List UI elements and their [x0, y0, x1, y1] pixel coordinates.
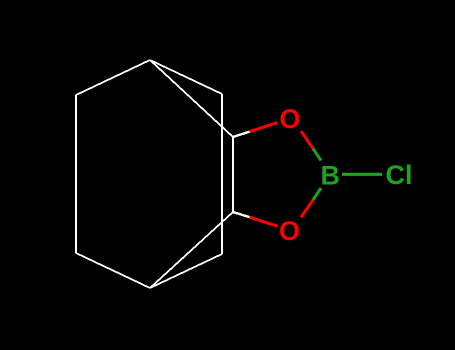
- wire bond O2-B green half: [313, 188, 321, 200]
- wire bond C5-C6 (left vertical): [75, 95, 77, 253]
- wire bond C7a-C3a (fused vertical): [232, 137, 234, 212]
- wire bond C3a-O1 red half: [250, 123, 278, 132]
- wire bond C4-C5 (top-left roof): [76, 60, 150, 95]
- svg-text:Cl: Cl: [386, 160, 413, 190]
- wire bond C7-C7a (bottom-right): [150, 212, 233, 288]
- wire bond C3a-O1 white half: [233, 132, 250, 137]
- wire bond O1-B red half: [301, 131, 313, 149]
- wire bond C4-C8 (bridge top): [150, 60, 222, 94]
- wire bond C6-C7 (bottom-left): [76, 253, 150, 288]
- wire bond O1-B green half: [313, 149, 321, 161]
- wire bond C3a-C4 (top-right): [150, 60, 233, 137]
- wire bond B-Cl: [342, 173, 382, 176]
- wire bond C8-C9 (bridge vertical): [221, 94, 223, 254]
- wire bond C7a-O2 red half: [250, 217, 278, 226]
- wire bond C9-C7 (bridge bottom): [150, 254, 222, 288]
- svg-text:B: B: [321, 161, 341, 191]
- wire bond O2-B red half: [301, 200, 313, 218]
- svg-text:O: O: [279, 216, 300, 246]
- svg-text:O: O: [279, 104, 300, 134]
- wire bond C7a-O2 white half: [233, 212, 250, 217]
